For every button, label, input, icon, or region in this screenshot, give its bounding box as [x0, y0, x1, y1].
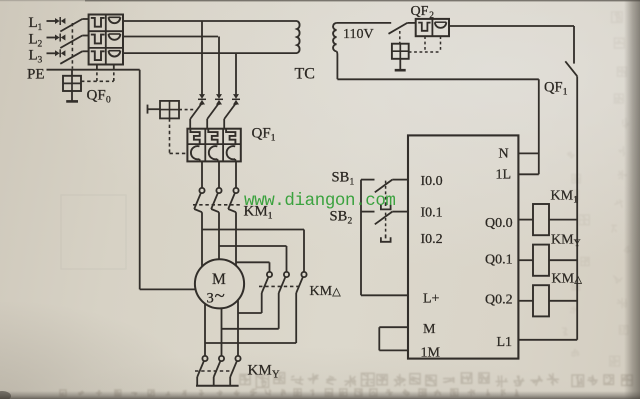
svg-text:L: L [29, 47, 38, 63]
svg-text:N: N [499, 147, 509, 162]
svg-text:KM: KM [551, 233, 574, 248]
svg-text:~: ~ [215, 286, 225, 307]
svg-text:KM: KM [551, 189, 574, 204]
svg-text:1L: 1L [496, 168, 512, 183]
svg-text:Q0.1: Q0.1 [485, 253, 513, 268]
svg-text:I0.0: I0.0 [421, 174, 443, 189]
svg-text:KM: KM [248, 363, 272, 379]
svg-text:L1: L1 [497, 335, 513, 350]
svg-text:QF: QF [87, 88, 106, 104]
svg-text:1M: 1M [421, 346, 441, 361]
svg-text:I0.2: I0.2 [421, 232, 443, 247]
svg-text:SB: SB [332, 170, 350, 186]
svg-text:KM: KM [310, 284, 333, 299]
svg-text:KM: KM [552, 272, 575, 287]
svg-text:Q0.2: Q0.2 [485, 293, 513, 308]
svg-text:QF: QF [544, 80, 563, 96]
svg-text:3: 3 [207, 291, 214, 307]
svg-text:1: 1 [350, 178, 355, 188]
svg-text:QF: QF [411, 4, 429, 19]
svg-text:1: 1 [38, 23, 43, 33]
svg-text:M: M [423, 322, 436, 337]
svg-text:1: 1 [271, 134, 276, 144]
svg-text:QF: QF [252, 126, 271, 142]
svg-text:2: 2 [38, 40, 43, 50]
svg-text:0: 0 [106, 96, 111, 106]
svg-text:1: 1 [268, 212, 273, 222]
svg-text:L: L [29, 15, 38, 31]
svg-text:L: L [29, 32, 38, 48]
svg-text:△: △ [332, 286, 341, 298]
svg-text:Q0.0: Q0.0 [485, 216, 513, 231]
svg-text:2: 2 [348, 217, 353, 227]
svg-text:△: △ [574, 275, 582, 286]
svg-text:I0.1: I0.1 [421, 206, 443, 221]
svg-text:TC: TC [295, 66, 315, 83]
svg-text:110V: 110V [343, 27, 374, 42]
svg-text:Y: Y [272, 370, 280, 381]
svg-text:1: 1 [573, 196, 578, 206]
svg-text:2: 2 [429, 11, 434, 21]
svg-text:Y: Y [574, 239, 581, 249]
svg-text:1: 1 [563, 88, 568, 98]
svg-text:PE: PE [27, 67, 45, 83]
svg-text:L+: L+ [423, 292, 440, 307]
svg-text:3: 3 [38, 55, 43, 65]
